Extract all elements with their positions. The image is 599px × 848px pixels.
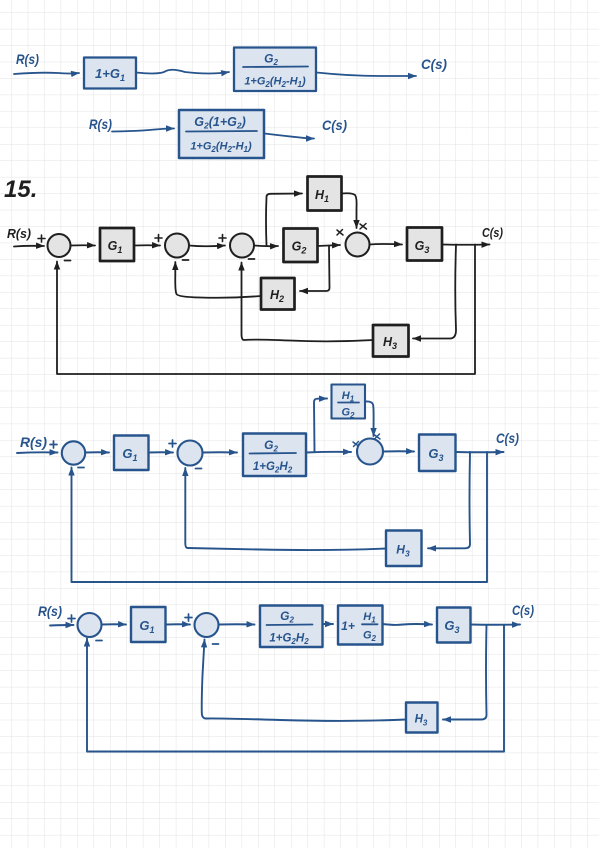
block 1+H1/G2 — [338, 606, 383, 645]
plus sign at S2 d5 — [185, 614, 192, 621]
plus sign at S3 — [219, 235, 226, 242]
wire H3 back up into S2 d5 — [202, 640, 406, 721]
wire input to sum S1 — [14, 245, 44, 248]
svg-text:C(s): C(s) — [496, 430, 519, 446]
svg-text:1+G2H2: 1+G2H2 — [253, 461, 293, 475]
wire S2 to G2 block d5 — [219, 623, 255, 625]
minus sign at S2 d5 — [213, 643, 219, 645]
wire outer feedback loop to S1 d4 — [72, 452, 488, 582]
plus mark left of S3 d4 — [353, 442, 359, 447]
block G2(1+G2)/(1+G2(H2-H1)) — [179, 110, 264, 158]
minus sign at S1 d4 — [78, 467, 84, 469]
block G3 d3 — [407, 228, 442, 261]
wire S2 to G2 block d4 — [203, 451, 238, 453]
block G3 d5 — [437, 608, 471, 643]
svg-text:R(s): R(s) — [20, 434, 47, 450]
svg-text:R(s): R(s) — [89, 116, 112, 132]
block 1+G1 — [84, 58, 136, 89]
plus sign at S2 — [155, 235, 162, 242]
svg-text:R(s): R(s) — [16, 51, 39, 67]
wire G2 block to 1+H1/G2 block d5 — [323, 623, 334, 625]
wire input to S1 d4 — [17, 451, 58, 454]
wire G3 to C(s) d5, takeoff nodes — [471, 624, 521, 626]
block G1 d5 — [131, 607, 166, 642]
wire G3 to C(s) d4, takeoff nodes — [456, 451, 504, 453]
wire H2 back up into S2 — [175, 262, 261, 298]
wire H1/G2 down into S3 d4 — [365, 401, 374, 436]
block H2 — [261, 278, 295, 310]
summing junction S3 d4 — [357, 439, 383, 465]
svg-text:C(s): C(s) — [421, 56, 447, 72]
wire takeoff up to H1/G2 block — [314, 399, 327, 453]
wire S3 to G3 d4 — [383, 450, 414, 452]
wire takeoff down to H3 — [413, 245, 456, 339]
minus sign at S1 — [65, 260, 71, 262]
wire outer feedback loop to S1 d5 — [87, 625, 504, 752]
svg-text:C(s): C(s) — [322, 117, 347, 133]
wire S3 to G2, node with H1 takeoff — [254, 245, 278, 248]
block H1/G2 — [332, 385, 366, 421]
svg-text:15.: 15. — [4, 176, 37, 203]
wire H3 back up into S2 d4 — [185, 468, 386, 550]
svg-text:1+: 1+ — [341, 619, 355, 633]
summing junction S2 d5 — [195, 613, 219, 637]
wire S1 to G1 d4 — [85, 451, 109, 453]
summing junction S1 d4 — [62, 441, 85, 464]
minus sign at S3 — [249, 258, 255, 260]
block G1 d4 — [114, 436, 149, 471]
minus sign at S2 d4 — [196, 468, 202, 470]
block H1 — [308, 177, 342, 211]
svg-text:R(s): R(s) — [38, 603, 62, 619]
svg-text:C(s): C(s) — [482, 225, 503, 240]
plus mark right of S4 — [360, 224, 367, 230]
block G2/(1+G2H2) d5 — [260, 606, 323, 648]
block G1 d3 — [100, 228, 134, 261]
wire G2 block to S3 d4, takeoff node — [306, 451, 351, 454]
block G2/(1+G2(H2-H1)) — [234, 48, 316, 92]
block G2/(1+G2H2) d4 — [243, 434, 306, 477]
wire takeoff up to H1 — [266, 194, 302, 246]
summing junction S1 — [48, 234, 71, 257]
plus mark right of S3 d4 — [374, 434, 380, 439]
wire outer feedback loop to S1 — [57, 245, 475, 375]
wire G1 to S2 d4 — [149, 451, 174, 453]
wire S1 to G1 — [71, 244, 96, 246]
summing junction S2 — [165, 234, 189, 258]
wire R(s) to block 1+G1 — [14, 73, 79, 74]
plus sign at S1 — [38, 235, 45, 242]
wire input to S1 d5 — [50, 624, 74, 627]
plus mark left of S4 — [337, 230, 343, 236]
plus sign at S2 d4 — [169, 440, 176, 447]
minus sign at S1 d5 — [96, 640, 102, 642]
block G2 d3 — [284, 229, 318, 263]
svg-text:1+G2(H2-H1): 1+G2(H2-H1) — [244, 76, 306, 90]
wire S2 to S3 — [189, 245, 225, 248]
block H3 — [373, 325, 409, 357]
summing junction S2 d4 — [178, 441, 203, 466]
plus sign at S1 d5 — [68, 615, 75, 622]
minus sign at S2 — [183, 259, 189, 261]
wire S1 to G1 d5 — [102, 623, 127, 625]
summing junction S4 — [346, 233, 370, 257]
wire G1 to S2 — [134, 244, 160, 246]
wire R(s) to block — [112, 129, 174, 132]
plus sign at S1 d4 — [50, 441, 57, 448]
block G3 d4 — [419, 435, 456, 472]
wire block2 to C(s) — [317, 73, 417, 77]
wire block to C(s) d2 — [265, 134, 315, 139]
wire H3 back up into S3 — [242, 263, 374, 342]
svg-text:C(s): C(s) — [512, 602, 534, 618]
block H3 d5 — [406, 703, 438, 733]
wire 1+H1/G2 to G3 d5 — [383, 623, 433, 626]
summing junction S1 d5 — [78, 613, 102, 637]
wire block1 to block2 — [136, 70, 229, 74]
svg-text:R(s): R(s) — [7, 226, 31, 241]
wire G1 to S2 d5 — [166, 623, 191, 625]
block H3 d4 — [386, 531, 422, 567]
wire takeoff down to H3 d5 — [443, 625, 487, 720]
wire takeoff down to H2 — [300, 246, 330, 291]
wire G3 to C(s), takeoff nodes — [442, 244, 490, 246]
svg-text:1+G2(H2-H1): 1+G2(H2-H1) — [190, 141, 252, 155]
wire takeoff down to H3 d4 — [428, 452, 470, 548]
wire H1 down into S4 — [342, 193, 357, 228]
wire S4 to G3 — [370, 243, 403, 246]
summing junction S3 — [230, 234, 254, 258]
svg-text:1+G2H2: 1+G2H2 — [269, 633, 309, 647]
wire G2 to S4, node with H2 takeoff — [318, 245, 341, 246]
